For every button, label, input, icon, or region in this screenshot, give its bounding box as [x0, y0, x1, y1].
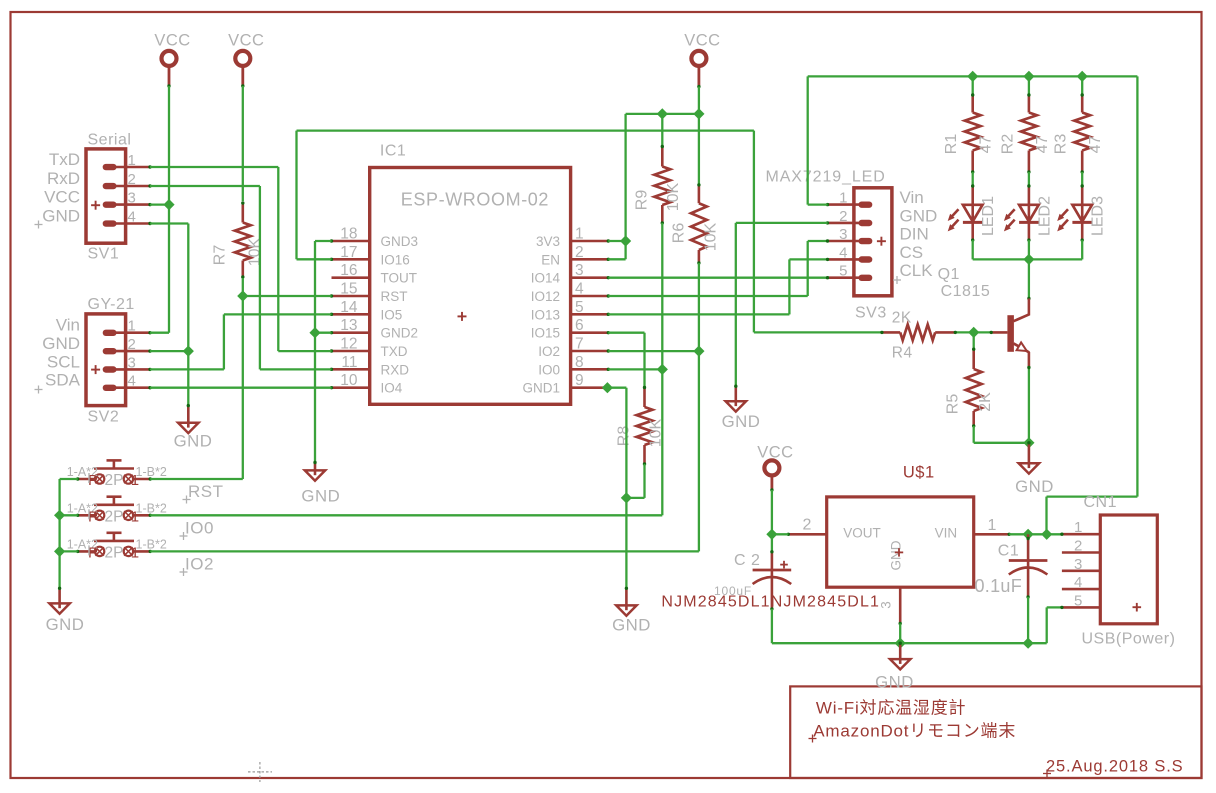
LED LED1: [971, 186, 974, 205]
SV1 pin 4: [116, 222, 150, 225]
wire Q1 base from junction: [955, 331, 991, 333]
IC1 pin 16 (TOUT): [332, 276, 370, 279]
svg-text:R3: R3: [1053, 134, 1070, 155]
wire SV1 pin1 TxD to IC1 TXD: [150, 166, 278, 168]
svg-text:IO2: IO2: [185, 555, 214, 574]
switch S2 (IO0 button): [95, 511, 104, 520]
CN1 pin 1: [1062, 533, 1100, 536]
svg-text:IC1: IC1: [380, 143, 406, 160]
svg-text:1: 1: [131, 544, 139, 561]
IC1 pin 5 (IO13): [571, 313, 609, 316]
svg-text:RxD: RxD: [47, 169, 80, 188]
IC1 pin 14 (IO5): [332, 313, 370, 316]
resistor R4: [882, 331, 900, 334]
wire rail to R1: [972, 76, 974, 95]
svg-text:ESP-WROOM-02: ESP-WROOM-02: [401, 190, 549, 210]
SV3 origin cross: [877, 240, 886, 242]
svg-text:LED1: LED1: [980, 196, 997, 236]
svg-text:IO15: IO15: [531, 326, 560, 341]
svg-text:R8: R8: [616, 426, 633, 447]
svg-text:1: 1: [128, 152, 136, 169]
wire IO14 to SV3 CLK: [608, 277, 827, 279]
wire VCC2 stem: [241, 67, 244, 86]
svg-text:LED2: LED2: [1036, 196, 1053, 236]
node base junction: [968, 327, 979, 338]
IC1 pin 13 (GND2): [332, 331, 370, 334]
wire R8 bottom to GND1 column: [643, 464, 645, 498]
wire VCC4 stem: [771, 477, 774, 490]
svg-text:IO5: IO5: [381, 307, 403, 322]
svg-text:VCC: VCC: [757, 444, 793, 462]
wire R1 to LED1: [972, 172, 974, 186]
svg-text:11: 11: [341, 354, 357, 371]
svg-text:U$1: U$1: [903, 464, 935, 482]
node emitter junction: [1023, 437, 1034, 448]
U$1 pin 2 VOUT: [788, 533, 826, 536]
svg-text:LED3: LED3: [1090, 196, 1107, 236]
resistor R7 column: VCC2 down to RST net: [242, 86, 244, 201]
VCC supply symbol 2: [235, 51, 250, 66]
svg-text:IO14: IO14: [531, 271, 561, 286]
svg-text:5: 5: [839, 263, 847, 280]
IC1 pin 9 (GND1): [571, 386, 609, 389]
IC1 pin 15 (RST): [332, 295, 370, 298]
IC1 pin 12 (TXD): [332, 350, 370, 353]
U$1 pin 3: [899, 587, 902, 623]
node top rail junction R1: [967, 71, 978, 82]
CN1 pin 3: [1062, 569, 1100, 572]
svg-text:C1: C1: [998, 542, 1019, 559]
svg-text:2: 2: [1074, 538, 1082, 555]
connector SV2 (GY-21): [86, 314, 126, 406]
node R8/GND1 junction: [621, 492, 632, 503]
switch S3 (IO2 button): [95, 547, 104, 556]
svg-text:4: 4: [575, 281, 584, 298]
regulator U$1 NJM2845DL1 box: [827, 497, 974, 587]
svg-text:17: 17: [340, 244, 357, 261]
IC1 pin 4 (IO12): [571, 295, 609, 298]
svg-text:2: 2: [128, 171, 136, 188]
IC1 pin 6 (IO15): [571, 331, 609, 334]
resistor R5 column: [973, 332, 975, 349]
wire IC1 IO16 up and long top rail: [297, 258, 332, 260]
SV1 origin cross: [91, 204, 100, 206]
svg-text:IO2: IO2: [538, 344, 560, 359]
VCC supply symbol 1: [162, 51, 177, 66]
wire U$1 pin3 down: [899, 624, 901, 644]
resistor R8: [643, 388, 646, 408]
svg-text:SV2: SV2: [88, 409, 120, 426]
svg-text:47: 47: [1087, 136, 1104, 154]
SV1 pin 3: [116, 203, 150, 206]
connector CN1 USB(Power): [1100, 515, 1157, 624]
svg-text:1: 1: [1074, 519, 1082, 536]
svg-text:2: 2: [128, 336, 136, 353]
IC1 pin 2 (EN): [571, 258, 609, 261]
wire VOUT to VCC/C2: [772, 533, 788, 535]
SV3 pin 4: [828, 258, 862, 261]
svg-text:GND3: GND3: [381, 234, 419, 249]
svg-text:14: 14: [340, 299, 358, 316]
svg-text:GND: GND: [875, 673, 914, 692]
wire IC1 GND2: [315, 332, 332, 334]
SV2 pin 2: [116, 350, 150, 353]
VCC supply symbol 3: [691, 51, 706, 66]
node top rail junction R3: [1077, 71, 1088, 82]
node VCC rail junction R6: [693, 108, 704, 119]
wire R2 to LED2: [1028, 172, 1030, 186]
svg-text:TXD: TXD: [381, 344, 408, 359]
wire SV1 pin4 GND down: [150, 222, 188, 224]
switch S1 (RST button): [95, 474, 104, 483]
wire GND1 row: [607, 387, 626, 389]
SV3 pin 1: [828, 203, 862, 206]
wire LED bottom rail: [973, 258, 1082, 260]
svg-text:Serial: Serial: [88, 132, 132, 149]
svg-text:VCC: VCC: [154, 32, 190, 50]
SV2 pin 4: [116, 386, 150, 389]
svg-text:GND: GND: [1015, 477, 1054, 496]
IC1 pin 3 (IO14): [571, 276, 609, 279]
node IO2 junction: [693, 346, 704, 357]
connector SV3 (MAX7219_LED): [854, 188, 892, 296]
svg-text:VCC: VCC: [684, 32, 720, 50]
svg-text:R7: R7: [212, 245, 229, 266]
wire right drop from top rail: [1136, 76, 1138, 496]
svg-text:2: 2: [803, 517, 812, 534]
LED LED3: [1081, 186, 1084, 205]
svg-text:47: 47: [1034, 136, 1051, 154]
capacitor C2 100uF: [771, 552, 774, 570]
svg-text:IO0: IO0: [538, 362, 560, 377]
svg-text:47: 47: [978, 136, 995, 154]
node button rail junction 1: [54, 510, 65, 521]
svg-text:2K: 2K: [977, 392, 994, 412]
node VOUT junction: [766, 529, 777, 540]
svg-text:1: 1: [988, 517, 997, 534]
svg-text:18: 18: [340, 226, 357, 243]
svg-text:12: 12: [340, 336, 357, 353]
wire top LED rail: [808, 75, 1138, 77]
svg-text:9: 9: [575, 372, 584, 389]
node VCC/SV1.3 junction: [163, 199, 174, 210]
svg-text:AmazonDotリモコン端末: AmazonDotリモコン端末: [813, 722, 1016, 741]
capacitor C1 0.1uF: [1027, 534, 1030, 560]
title box: [790, 686, 1201, 778]
wire SV3 pin1 up to top rail: [808, 203, 828, 205]
svg-text:3V3: 3V3: [536, 234, 560, 249]
node VIN/CN1 junction: [1041, 529, 1052, 540]
svg-text:1-B*2: 1-B*2: [136, 538, 167, 552]
wire VCC3 down to rail: [698, 87, 700, 114]
wire RST row to IC1: [243, 295, 332, 297]
wire C1 bottom to rail: [1027, 597, 1029, 643]
svg-text:15: 15: [340, 281, 357, 298]
wire LED rail down to Q1 collector: [1028, 259, 1030, 298]
wire SV3 pin2 GND: [736, 222, 828, 224]
svg-text:TOUT: TOUT: [381, 271, 418, 286]
svg-text:0.1uF: 0.1uF: [975, 576, 1023, 596]
IC1 pin 8 (IO0): [571, 368, 609, 371]
node 3V3 junction: [620, 235, 631, 246]
SV3 pin 3: [828, 240, 862, 243]
wire rail to R2: [1028, 76, 1030, 95]
wire LED2 to bottom rail: [1028, 240, 1030, 259]
wire rail to R3: [1081, 76, 1083, 95]
svg-text:1: 1: [128, 318, 136, 335]
svg-text:GND: GND: [174, 432, 213, 451]
svg-text:2: 2: [575, 244, 584, 261]
svg-text:CN1: CN1: [1084, 494, 1118, 511]
resistor R3: [1081, 95, 1084, 113]
svg-text:10K: 10K: [703, 222, 720, 251]
wire button IO0 long row: [150, 514, 662, 516]
svg-text:Vin: Vin: [900, 188, 924, 207]
svg-text:GND: GND: [900, 206, 938, 225]
SV3 pin 5: [828, 276, 862, 279]
svg-text:5: 5: [1074, 592, 1082, 609]
wire button left rail to ground: [60, 478, 78, 480]
svg-text:1: 1: [839, 190, 847, 207]
svg-text:7: 7: [575, 336, 584, 353]
SV2 pin 3: [116, 368, 150, 371]
CN1 pin 5: [1062, 606, 1100, 609]
svg-text:1-B*2: 1-B*2: [136, 502, 167, 516]
svg-text:10K: 10K: [665, 182, 682, 211]
svg-text:8: 8: [575, 354, 584, 371]
node button rail junction 2: [54, 546, 65, 557]
svg-text:SV1: SV1: [88, 246, 120, 263]
svg-text:GND1: GND1: [522, 381, 560, 396]
svg-text:CS: CS: [900, 243, 924, 262]
svg-text:GND: GND: [889, 540, 904, 570]
svg-text:R9: R9: [634, 190, 651, 211]
wire bottom GND rail: [772, 642, 1047, 644]
svg-text:GND: GND: [722, 412, 761, 431]
svg-text:1: 1: [575, 226, 584, 243]
wire IO15-rail to R4: [754, 331, 882, 333]
svg-text:TxD: TxD: [49, 150, 80, 169]
wire VCC3 stem: [698, 67, 701, 86]
svg-text:3: 3: [128, 354, 136, 371]
IC1 pin 1 (3V3): [571, 240, 609, 243]
node top rail junction R2: [1023, 71, 1034, 82]
svg-text:10: 10: [340, 372, 358, 389]
svg-text:GND: GND: [42, 207, 80, 226]
wire IC1 GND3 to GND2 and ground: [315, 240, 332, 242]
svg-text:IO0: IO0: [185, 519, 214, 538]
op IC1 ESP-WROOM-02 box: [370, 168, 571, 405]
wire VIN row to CN1: [1009, 533, 1062, 535]
svg-text:GY-21: GY-21: [88, 296, 135, 313]
ground GND B (below IC1 left): [314, 463, 317, 476]
resistor R9 column: [661, 114, 663, 147]
svg-text:6: 6: [575, 317, 584, 334]
svg-text:R1: R1: [943, 134, 960, 155]
svg-text:R6: R6: [671, 223, 688, 244]
ground GND C (buttons): [58, 588, 61, 608]
node C1 top junction: [1023, 529, 1034, 540]
svg-text:MAX7219_LED: MAX7219_LED: [766, 169, 886, 186]
ground GND D (GND1): [625, 588, 628, 610]
CN1 pin 2: [1062, 551, 1100, 554]
svg-text:2: 2: [839, 208, 847, 225]
node LED rail junction: [1023, 254, 1034, 265]
IC1 pin 11 (RXD): [332, 368, 370, 371]
svg-text:2P: 2P: [105, 544, 124, 561]
svg-text:DIN: DIN: [900, 225, 929, 244]
ground GND G (U$1): [899, 643, 902, 664]
svg-text:4: 4: [839, 244, 847, 261]
svg-text:C 2: C 2: [734, 552, 760, 569]
svg-text:5: 5: [575, 299, 584, 316]
svg-text:1-B*2: 1-B*2: [136, 465, 167, 479]
svg-text:2P: 2P: [105, 508, 124, 525]
svg-text:VIN: VIN: [935, 526, 958, 541]
svg-text:4: 4: [128, 373, 136, 390]
wire LED3 to bottom rail: [1081, 240, 1083, 259]
svg-text:GND: GND: [301, 487, 340, 506]
LED LED2: [1028, 186, 1031, 205]
wire R3 to LED3: [1081, 172, 1083, 186]
VCC supply symbol 4: [764, 460, 779, 475]
svg-text:USB(Power): USB(Power): [1082, 631, 1176, 648]
IC1 pin 10 (IO4): [332, 386, 370, 389]
wire IO2 row to IC1: [608, 350, 699, 352]
IC1 origin cross: [458, 315, 467, 317]
svg-text:25.Aug.2018 S.S: 25.Aug.2018 S.S: [1046, 758, 1184, 776]
svg-text:1: 1: [131, 508, 139, 525]
SV2 pin 1: [116, 331, 150, 334]
node GND1 stub junction: [602, 382, 613, 393]
svg-text:3: 3: [879, 601, 894, 609]
resistor R7: [242, 203, 245, 223]
svg-text:CLK: CLK: [900, 261, 934, 280]
resistor R6: [698, 185, 701, 203]
wire EN to IC1: [608, 258, 625, 260]
svg-text:4: 4: [1074, 574, 1082, 591]
sheet origin cross: [248, 762, 272, 782]
SV2 origin cross: [91, 369, 100, 371]
node C1/rail junction: [1023, 638, 1034, 649]
svg-text:VOUT: VOUT: [843, 526, 881, 541]
svg-text:3: 3: [128, 190, 136, 207]
wire button RST to R7 column: [150, 478, 243, 480]
svg-text:R5: R5: [945, 394, 962, 415]
resistor R6 column: [698, 114, 700, 185]
resistor R5: [972, 349, 975, 369]
wire R5 bottom: [973, 426, 975, 443]
svg-text:RST: RST: [188, 482, 224, 501]
svg-text:VCC: VCC: [44, 188, 80, 207]
wire IO13 to SV3 CS: [608, 313, 789, 315]
node pin3/rail junction: [895, 638, 906, 649]
wire SV2 pin4 SDA to IC1 IO4: [150, 387, 332, 389]
wire SV2 pin3 SCL to IC1 IO5: [150, 368, 224, 370]
svg-text:4: 4: [128, 209, 136, 226]
wire IO12 to SV3 DIN: [608, 295, 807, 297]
wire rail up to CN1 pin5: [1046, 607, 1048, 643]
svg-text:RST: RST: [381, 289, 408, 304]
node IO0 junction: [657, 364, 668, 375]
wire R6 bottom to IO2 row: [698, 263, 700, 351]
svg-text:R2: R2: [999, 134, 1016, 155]
wire IO15 to R8: [608, 332, 644, 334]
IC1 pin 17 (IO16): [332, 258, 370, 261]
IC1 pin 18 (GND3): [332, 240, 370, 243]
svg-text:3: 3: [1074, 556, 1082, 573]
svg-text:2K: 2K: [892, 309, 912, 326]
svg-text:IO16: IO16: [381, 252, 410, 267]
wire VCC1 stem: [168, 67, 171, 86]
svg-text:10K: 10K: [648, 418, 665, 447]
node GND2 junction: [309, 327, 320, 338]
wire VCC rail horizontal: [626, 113, 699, 115]
SV1 pin 2: [116, 185, 150, 188]
svg-text:GND2: GND2: [381, 326, 419, 341]
svg-text:16: 16: [340, 262, 357, 279]
svg-text:GND: GND: [46, 615, 85, 634]
svg-text:3: 3: [839, 226, 847, 243]
svg-text:EN: EN: [541, 252, 560, 267]
ground GND A (below SV2): [187, 406, 190, 428]
svg-text:1: 1: [131, 472, 139, 489]
svg-text:IO12: IO12: [531, 289, 560, 304]
svg-text:Wi-Fi対応温湿度計: Wi-Fi対応温湿度計: [816, 699, 966, 718]
wire VCC rail down to 3V3: [624, 114, 626, 259]
svg-text:13: 13: [340, 317, 357, 334]
svg-text:Vin: Vin: [56, 316, 80, 335]
wire LED1 to bottom rail: [972, 240, 974, 259]
SV1 pin 1: [116, 166, 150, 169]
wire GND1 column down: [625, 388, 627, 589]
CN1 origin cross: [1133, 606, 1142, 608]
node VCC rail junction R9: [657, 108, 668, 119]
node SV2 pin2 GND junction: [183, 346, 194, 357]
svg-text:SDA: SDA: [45, 371, 81, 390]
resistor R9: [661, 147, 664, 167]
connector SV1 (Serial): [86, 149, 126, 243]
svg-text:SV3: SV3: [855, 305, 887, 322]
wire R9 bottom to IO0 row: [661, 223, 663, 369]
wire C2 bottom to GND rail: [771, 609, 773, 643]
wire VCC rail to SV1 pin3 / SV2 pin1: [168, 86, 170, 333]
svg-text:GND: GND: [42, 334, 80, 353]
svg-text:VCC: VCC: [228, 32, 264, 50]
wire SV2 pin2 GND: [150, 350, 188, 352]
ground GND F (Q1): [1028, 443, 1031, 468]
SV3 pin 2: [828, 222, 862, 225]
svg-text:IO4: IO4: [381, 381, 403, 396]
svg-text:C1815: C1815: [941, 283, 991, 300]
CN1 pin 4: [1062, 588, 1100, 591]
wire IO0 row to IC1: [608, 368, 662, 370]
svg-text:R4: R4: [892, 345, 913, 362]
wire button IO2 long row: [150, 550, 699, 552]
svg-text:2P: 2P: [105, 472, 124, 489]
U$1 pin 1 VIN: [974, 533, 1010, 536]
svg-text:3: 3: [575, 262, 584, 279]
svg-text:Q1: Q1: [938, 266, 960, 283]
svg-text:SCL: SCL: [47, 352, 80, 371]
node RST junction: [237, 290, 248, 301]
transistor Q1 C1815: [1007, 315, 1014, 352]
svg-text:IO13: IO13: [531, 307, 560, 322]
wire Q1 emitter down: [1028, 368, 1030, 443]
svg-text:RXD: RXD: [381, 362, 410, 377]
resistor R1: [971, 95, 974, 113]
wire R7 bottom to RST row and button: [242, 278, 244, 479]
